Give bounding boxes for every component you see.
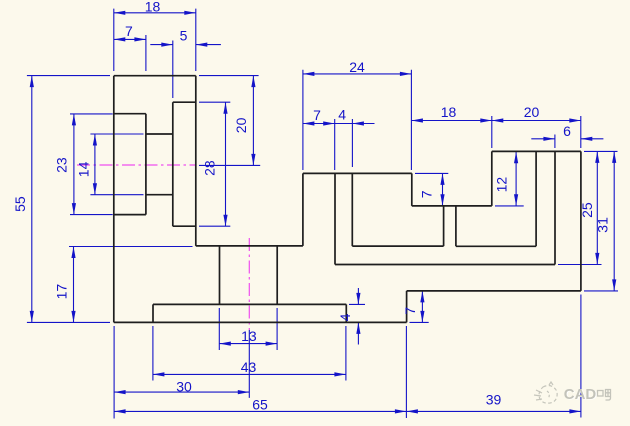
svg-text:17: 17 [54,284,70,300]
svg-text:7: 7 [402,307,418,315]
svg-text:4: 4 [338,107,346,123]
svg-text:13: 13 [241,328,257,344]
svg-text:25: 25 [579,202,595,218]
svg-text:39: 39 [486,391,502,407]
svg-text:23: 23 [54,157,70,173]
svg-text:24: 24 [349,59,365,75]
svg-text:7: 7 [125,23,133,39]
svg-text:12: 12 [494,177,510,193]
svg-text:18: 18 [145,0,161,14]
svg-text:30: 30 [176,378,192,394]
svg-text:65: 65 [252,397,268,413]
svg-text:4: 4 [337,313,353,321]
svg-text:CAD: CAD [564,386,597,403]
svg-text:7: 7 [419,190,435,198]
svg-text:5: 5 [180,27,188,43]
svg-text:28: 28 [202,160,218,176]
svg-text:6: 6 [563,123,571,139]
svg-text:43: 43 [241,359,257,375]
svg-text:7: 7 [313,107,321,123]
svg-text:55: 55 [12,196,28,212]
svg-text:14: 14 [75,161,91,177]
svg-text:20: 20 [233,117,249,133]
svg-text:18: 18 [441,104,457,120]
svg-text:31: 31 [595,217,611,233]
svg-text:20: 20 [524,104,540,120]
